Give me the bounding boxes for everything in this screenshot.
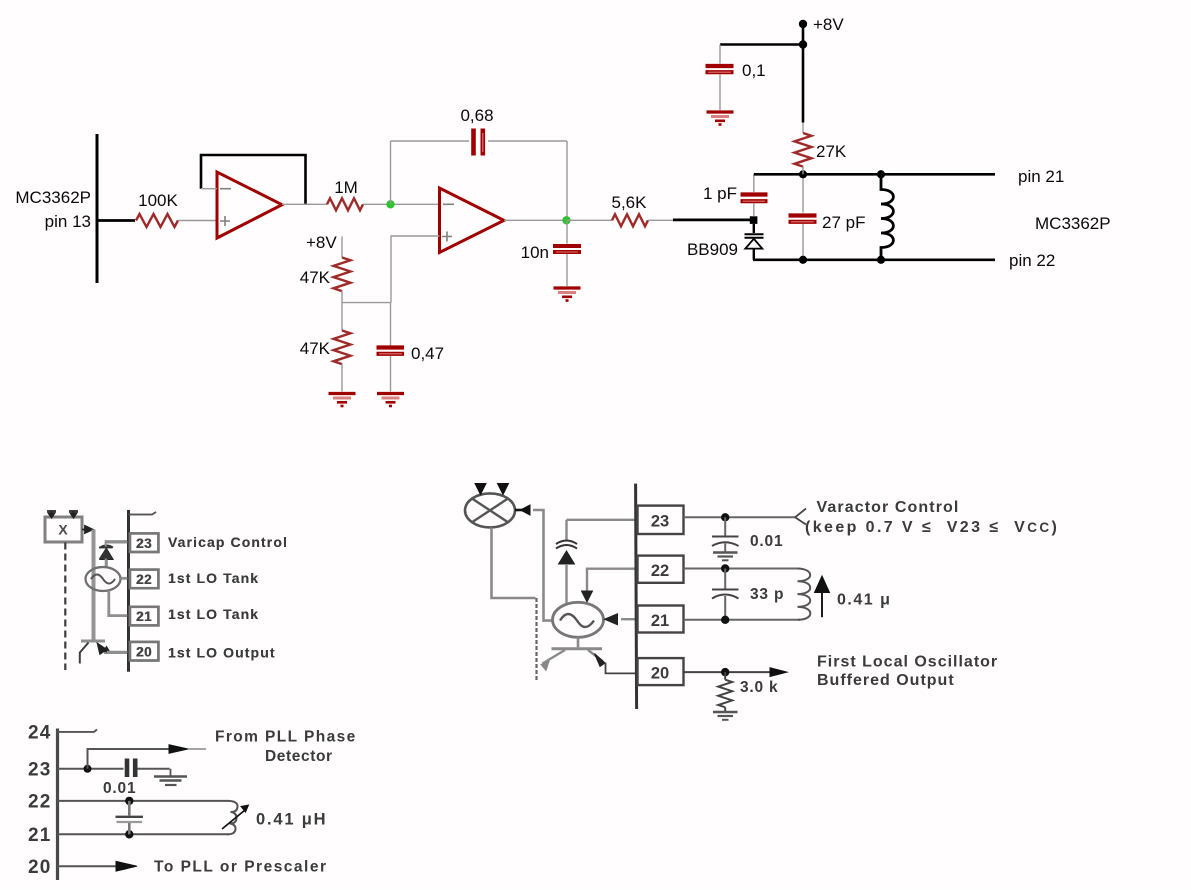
varactor to pin 23 xyxy=(107,542,130,544)
svg-text:Detector: Detector xyxy=(265,748,333,765)
bus line frag3 xyxy=(636,484,637,709)
svg-text:23: 23 xyxy=(651,513,669,531)
connector split pin23 xyxy=(795,509,806,525)
pin box 23 xyxy=(130,533,159,552)
svg-text:0,68: 0,68 xyxy=(460,106,493,125)
pin 24 stub xyxy=(57,730,97,732)
wire pin 22 out xyxy=(684,568,798,570)
pin 24 stub frag1 xyxy=(128,512,156,515)
svg-text:20: 20 xyxy=(28,857,52,878)
mixer input arrow left xyxy=(47,511,56,518)
pin box 22 xyxy=(130,570,159,589)
ground 3.0k xyxy=(713,712,738,720)
svg-text:pin 22: pin 22 xyxy=(1009,251,1055,270)
capacitor 0,1 xyxy=(706,45,766,111)
wire pin 23 out xyxy=(684,516,796,518)
variable inductor 0.41 uH xyxy=(227,801,238,834)
svg-text:22: 22 xyxy=(651,562,669,580)
svg-text:0.41 μ: 0.41 μ xyxy=(837,592,891,609)
svg-text:Buffered Output: Buffered Output xyxy=(817,672,955,689)
svg-text:1st LO Tank: 1st LO Tank xyxy=(168,570,259,586)
svg-text:21: 21 xyxy=(136,609,152,624)
wire pin13 to R 100K xyxy=(97,219,135,222)
wire 1M to op-amp U2 - input xyxy=(363,203,440,205)
inductor L1 xyxy=(881,174,893,259)
wire U2 feedback top xyxy=(391,140,470,142)
svg-text:0.41 μH: 0.41 μH xyxy=(256,811,327,829)
svg-text:22: 22 xyxy=(28,792,52,813)
svg-text:1st LO Tank: 1st LO Tank xyxy=(168,606,259,622)
op-amp U2 xyxy=(440,188,505,253)
arrow up 0.41u xyxy=(821,592,823,617)
pin 22 branch arrow into oscillator xyxy=(587,569,635,591)
node dot 33p bottom xyxy=(721,616,729,624)
svg-text:24: 24 xyxy=(28,723,52,744)
wire mixer bottom to hatched line xyxy=(492,528,536,599)
wire pin 22 row xyxy=(753,258,995,261)
dashed line below X box xyxy=(64,543,66,671)
pin 24 stub frag1 xyxy=(129,512,156,515)
resistor 100K xyxy=(136,214,178,227)
node junction dots bottom row xyxy=(799,256,807,264)
capacitor between pins 22-21 xyxy=(128,801,131,816)
wire pin 20 with arrow xyxy=(57,865,117,867)
wire 100K to op-amp U1 + input xyxy=(178,220,217,222)
mixer X box xyxy=(45,517,82,542)
pin box 22 frag3 xyxy=(638,556,684,583)
wire pin 22 xyxy=(57,800,229,802)
svg-text:100K: 100K xyxy=(138,191,178,210)
node dot pin22 xyxy=(125,797,133,805)
mixer input arrow right xyxy=(69,511,78,518)
node dot pin23 xyxy=(84,765,92,773)
wire 5,6K to varactor node xyxy=(648,219,674,221)
capacitor 33 p xyxy=(724,569,726,589)
node junction dots redraw top xyxy=(799,170,807,178)
capacitor 27 pF xyxy=(789,174,866,259)
svg-text:20: 20 xyxy=(136,644,151,659)
mixer circle with X xyxy=(465,493,515,527)
wire oscillator to pin 21 xyxy=(109,591,130,616)
capacitor 0,47 xyxy=(377,303,445,392)
ground below 0,47 xyxy=(377,394,404,407)
ground below 47K xyxy=(329,394,356,407)
svg-text:47K: 47K xyxy=(300,268,331,287)
transistor Q2 xyxy=(577,637,580,647)
pin box 20 xyxy=(130,642,159,661)
wire U1 feedback (output to - input) xyxy=(201,155,306,204)
node A (green junction) xyxy=(386,200,394,208)
wire pin 21 row xyxy=(754,173,995,176)
power +8V top xyxy=(720,15,844,123)
resistor 27K xyxy=(795,123,847,175)
svg-text:1st LO Output: 1st LO Output xyxy=(168,645,276,661)
node B (green junction) xyxy=(562,216,570,224)
transistor Q1 xyxy=(81,640,105,643)
svg-text:X: X xyxy=(58,522,68,538)
varactor to pin 23 xyxy=(106,542,130,546)
node dot 33p top xyxy=(721,564,729,572)
capacitor 0.01 frag3 xyxy=(724,517,726,535)
svg-text:To PLL or Prescaler: To PLL or Prescaler xyxy=(154,859,328,876)
bus line frag1 xyxy=(127,510,130,672)
pin box 21 xyxy=(130,607,159,626)
capacitor 0,68 xyxy=(460,106,493,156)
capacitor 10n xyxy=(521,220,581,286)
wire transistor to pin 20 xyxy=(606,663,636,674)
node MC3362P pin 13 input bar xyxy=(96,134,99,283)
varactor branch to pin 23 xyxy=(567,519,636,521)
arrow pin 20 out xyxy=(770,668,787,677)
inductor coil frag3 xyxy=(797,569,810,620)
wire pin 21 out xyxy=(684,619,801,621)
resistor 47K lower xyxy=(334,331,351,365)
svg-text:First Local Oscillator: First Local Oscillator xyxy=(817,654,998,671)
wire U2 + input xyxy=(391,236,440,303)
pin box 20 frag3 xyxy=(638,658,684,685)
wire pin 20 out xyxy=(684,671,771,673)
wire node B to R 5,6K xyxy=(567,219,613,221)
svg-text:MC3362P: MC3362P xyxy=(1035,214,1111,233)
svg-text:23: 23 xyxy=(136,536,152,551)
capacitor 0.01 frag2 xyxy=(125,759,130,778)
svg-text:23: 23 xyxy=(28,760,52,781)
pin box 23 frag3 xyxy=(638,506,684,534)
node dot pin21 xyxy=(125,830,133,838)
node dot 3.0k xyxy=(721,668,729,676)
op-amp U1 xyxy=(217,172,282,238)
svg-text:22: 22 xyxy=(136,572,151,587)
wire mixer to oscillator xyxy=(533,510,553,621)
svg-text:From PLL Phase: From PLL Phase xyxy=(215,729,357,746)
oscillator G2 xyxy=(553,602,604,637)
ground below 10n xyxy=(554,288,581,301)
diode BB909 varactor xyxy=(687,224,764,260)
svg-text:47K: 47K xyxy=(300,339,331,358)
svg-text:0.01: 0.01 xyxy=(103,780,136,797)
svg-text:10n: 10n xyxy=(521,243,549,262)
svg-text:21: 21 xyxy=(28,825,52,846)
wire X box to oscillator branch xyxy=(82,526,93,533)
svg-text:Varicap Control: Varicap Control xyxy=(168,534,288,550)
pin box 21 xyxy=(130,607,159,626)
ground frag2 pin23 xyxy=(154,769,187,785)
svg-text:5,6K: 5,6K xyxy=(612,193,648,212)
oscillator G1 xyxy=(86,567,121,591)
svg-text:1M: 1M xyxy=(334,178,358,197)
hatched line xyxy=(535,598,537,682)
node C (square junction) xyxy=(750,216,758,224)
svg-text:20: 20 xyxy=(651,665,669,683)
oscillator G1 xyxy=(86,567,121,591)
wire to PLL phase detector with arrow xyxy=(88,749,171,769)
svg-text:+8V: +8V xyxy=(813,15,844,34)
resistor 5,6K xyxy=(612,214,648,226)
wire pin 21 xyxy=(57,833,229,835)
wire U1 output to R 1M xyxy=(282,203,327,205)
wire oscillator to pin 22 xyxy=(121,577,130,580)
pin box 21 frag3 xyxy=(638,606,684,633)
pin box 23 xyxy=(130,533,159,552)
mixer input arrows xyxy=(475,484,486,495)
svg-text:3.0 k: 3.0 k xyxy=(740,679,778,696)
wire 47K junction xyxy=(341,291,343,331)
svg-text:(keep 0.7 V ≤ V23 ≤ VCC): (keep 0.7 V ≤ V23 ≤ VCC) xyxy=(805,519,1059,536)
wire oscillator to pin 21 xyxy=(109,591,130,616)
svg-text:MC3362P: MC3362P xyxy=(15,188,91,207)
pin 21 branch arrow into oscillator xyxy=(621,618,635,620)
ground below 0,1 xyxy=(707,112,734,125)
svg-text:21: 21 xyxy=(651,612,669,630)
bus line frag2 xyxy=(56,729,59,881)
arrow into mixer right xyxy=(515,509,522,512)
svg-text:27 pF: 27 pF xyxy=(822,213,865,232)
pin box 20 xyxy=(130,642,159,661)
wire U2 output xyxy=(504,219,567,221)
wire oscillator to pin 22 xyxy=(121,577,130,579)
bus line frag1 xyxy=(127,510,130,672)
wire U2 feedback left leg xyxy=(390,141,392,204)
resistor 47K upper xyxy=(334,258,351,292)
svg-text:0,47: 0,47 xyxy=(411,344,444,363)
wire transistor to pin 20 xyxy=(104,651,130,654)
capacitor 1 pF xyxy=(703,174,768,216)
resistor 1M xyxy=(327,198,363,210)
svg-text:+8V: +8V xyxy=(306,233,337,252)
svg-text:0,1: 0,1 xyxy=(742,61,766,80)
node dot 0.01 xyxy=(721,513,729,521)
resistor 3.0 k xyxy=(724,672,726,680)
ground 0.01 frag3 xyxy=(713,553,738,561)
svg-text:27K: 27K xyxy=(816,142,847,161)
pin box 22 xyxy=(130,570,159,589)
svg-text:Varactor Control: Varactor Control xyxy=(817,499,960,516)
svg-text:BB909: BB909 xyxy=(687,240,738,259)
wire pin 23 xyxy=(57,768,124,770)
svg-text:pin 13: pin 13 xyxy=(45,212,91,231)
svg-text:33 p: 33 p xyxy=(750,586,784,603)
svg-text:pin 21: pin 21 xyxy=(1018,167,1064,186)
wire U2 feedback right leg xyxy=(566,141,568,220)
wire transistor to pin 20 xyxy=(107,651,130,653)
svg-text:1 pF: 1 pF xyxy=(703,184,737,203)
node junction dots top row xyxy=(799,170,807,178)
svg-text:0.01: 0.01 xyxy=(750,533,783,550)
